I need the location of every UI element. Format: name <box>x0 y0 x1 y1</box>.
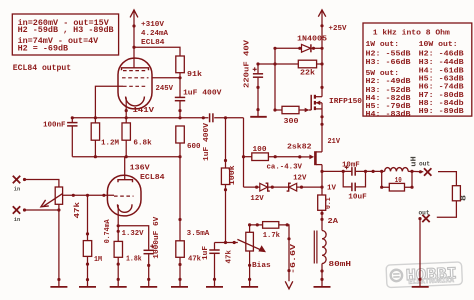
svg-text:1.8k: 1.8k <box>126 256 142 264</box>
svg-text:300: 300 <box>284 118 300 126</box>
svg-text:IRFP150: IRFP150 <box>329 98 363 106</box>
wire: bias feed line <box>215 241 238 244</box>
ground (1M) <box>79 286 96 288</box>
svg-text:H6: -74dB: H6: -74dB <box>419 84 465 92</box>
svg-text:H5: -63dB: H5: -63dB <box>419 76 465 84</box>
svg-text:245V: 245V <box>156 85 174 93</box>
wire: load bottom to out return <box>437 201 457 218</box>
power -6.6V negative supply <box>279 225 298 289</box>
wire: X1 to potentiometer <box>25 180 59 188</box>
wire: branch to 91k <box>134 47 180 56</box>
wire: screen grid g2 tap <box>152 77 180 79</box>
connector out (return) <box>418 209 429 222</box>
ground (choke) <box>314 286 331 288</box>
resistor 6.8k <box>122 123 152 158</box>
node: screen junction <box>178 76 181 79</box>
svg-text:10W out:: 10W out: <box>419 41 458 49</box>
svg-text:ECL84: ECL84 <box>141 39 165 47</box>
svg-text:47k: 47k <box>188 256 201 264</box>
wire: anode lead into pentode <box>133 47 135 68</box>
watermark HOBBI ELEKTRONIKA logo <box>386 262 462 288</box>
capacitor 100nF <box>43 118 78 157</box>
svg-text:80mH: 80mH <box>329 261 352 269</box>
svg-text:5W out:: 5W out: <box>366 70 400 78</box>
note box: measurement summary <box>12 14 118 55</box>
svg-text:8: 8 <box>461 195 469 201</box>
triode V1a ECL84 input section <box>107 175 141 216</box>
svg-text:47k: 47k <box>225 249 233 263</box>
ground (1000uF) <box>140 286 157 288</box>
connector out (hot) <box>419 160 431 175</box>
svg-text:1V: 1V <box>327 185 336 193</box>
connector X1 input "in" <box>13 176 26 193</box>
svg-text:H5: -79dB: H5: -79dB <box>366 103 412 111</box>
resistor 300 gate stopper <box>275 106 311 126</box>
svg-text:ECL84: ECL84 <box>140 174 165 182</box>
diode 1N4005 <box>275 36 328 53</box>
capacitor 220uF 40V <box>244 39 264 116</box>
power +310V <box>130 10 168 47</box>
wire: triode cathode down <box>117 205 120 241</box>
resistor 8 ohm load <box>452 186 468 201</box>
wire: main horizontal bus <box>72 118 243 187</box>
wire: choke to ground <box>320 264 323 287</box>
svg-text:10uF: 10uF <box>348 193 367 201</box>
connector X2 input "in" <box>13 206 26 223</box>
ground (pot) <box>50 286 67 288</box>
svg-text:-6.6V: -6.6V <box>290 243 298 274</box>
capacitor 1uF 400V screen bypass <box>175 90 222 118</box>
ground (220uF local) <box>250 116 267 118</box>
svg-text:10mF: 10mF <box>342 161 360 169</box>
resistor 91k <box>176 56 203 79</box>
inductor output uH coil <box>382 156 419 171</box>
ground (47k) <box>171 286 188 288</box>
zener diode 12V #2 <box>287 175 322 191</box>
svg-text:4.24mA: 4.24mA <box>141 30 168 38</box>
svg-text:1.7k: 1.7k <box>263 232 281 240</box>
node: bus junctions <box>71 116 227 119</box>
svg-text:H8: -84db: H8: -84db <box>419 100 465 108</box>
svg-text:H7: -80dB: H7: -80dB <box>419 92 465 100</box>
svg-text:1000uF 6V: 1000uF 6V <box>153 216 161 259</box>
resistor 22k <box>258 60 322 77</box>
svg-text:6.8k: 6.8k <box>133 139 152 147</box>
potentiometer Bias 47k <box>225 232 271 270</box>
svg-text:1.2M: 1.2M <box>101 139 119 147</box>
wire: wiper to triode grid <box>63 194 114 197</box>
MOSFET IRFP150 <box>311 95 362 110</box>
svg-text:0.1: 0.1 <box>325 197 333 209</box>
svg-text:H4: -83dB: H4: -83dB <box>366 111 412 119</box>
svg-text:1M: 1M <box>94 256 102 264</box>
svg-text:12V: 12V <box>250 195 264 203</box>
ground (1uF) <box>206 286 223 288</box>
resistor 1M grid leak <box>83 195 102 287</box>
wire: pentode control grid <box>95 86 123 118</box>
svg-text:22k: 22k <box>300 70 316 78</box>
svg-text:H4: -61dB: H4: -61dB <box>419 68 465 76</box>
node: segment dot <box>125 109 128 112</box>
svg-text:12V: 12V <box>293 175 307 183</box>
svg-text:21V: 21V <box>328 138 341 146</box>
resistor 10 damping <box>380 170 414 191</box>
svg-text:600: 600 <box>187 143 201 151</box>
resistor 1.8k cathode bias <box>114 241 142 287</box>
capacitor 10mF output <box>342 161 382 175</box>
svg-text:3.5mA: 3.5mA <box>187 230 210 238</box>
svg-text:47k: 47k <box>74 201 82 218</box>
wire: 600 down to 47k <box>178 143 181 241</box>
svg-text:100: 100 <box>253 146 268 154</box>
svg-text:1uF 400V: 1uF 400V <box>183 90 222 98</box>
svg-text:H3: -66dB: H3: -66dB <box>366 59 412 67</box>
wire: 91k to bypass cap <box>179 73 181 98</box>
wire: out to 8 ohm load <box>438 172 456 186</box>
svg-text:H2: -46dB: H2: -46dB <box>419 51 465 59</box>
svg-text:2A: 2A <box>328 218 339 226</box>
svg-text:+25V: +25V <box>329 25 347 33</box>
resistor 100k <box>221 118 236 243</box>
svg-text:H3: -44dB: H3: -44dB <box>419 59 465 67</box>
node: anode/91k junction <box>132 46 135 49</box>
svg-text:1uF: 1uF <box>202 245 210 260</box>
svg-text:ECL84 output: ECL84 output <box>13 64 71 73</box>
potentiometer 47k volume <box>41 187 82 218</box>
resistor 600 <box>176 126 201 151</box>
wire: X2 to pot bottom <box>25 209 59 211</box>
svg-text:1.32V: 1.32V <box>122 230 144 238</box>
wire: to out connector <box>412 170 423 173</box>
svg-text:2sk82: 2sk82 <box>287 144 312 152</box>
ground (output) <box>412 286 429 288</box>
svg-text:1N4005: 1N4005 <box>297 36 328 44</box>
node: segment dot <box>178 109 181 112</box>
capacitor 1000uF 6V <box>144 216 162 287</box>
wire: left branch of bootstrap <box>274 48 276 110</box>
wire: pentode cathode down <box>125 98 127 123</box>
svg-text:1uF 400V: 1uF 400V <box>203 122 211 161</box>
capacitor 1uF 400V coupling <box>203 113 213 161</box>
ground (bias pot) <box>241 286 258 288</box>
ground (1.8k) <box>110 286 127 288</box>
resistor 100 <box>242 146 300 160</box>
wire: bias pot bottom to ground <box>248 251 251 287</box>
power +25V <box>318 10 347 97</box>
wire: cathode to 1000uF <box>118 226 149 250</box>
wire: 0.1 to choke <box>320 210 323 230</box>
wire: bias pot top <box>248 223 289 232</box>
svg-text:out: out <box>419 209 430 216</box>
capacitor 10uF bypass branch <box>343 171 367 201</box>
svg-text:91k: 91k <box>187 71 203 79</box>
wire: rail 2SK82 source down <box>320 165 323 195</box>
zener diode 12V #1 <box>244 183 289 203</box>
svg-text:H2 -59dB , H3 -89dB: H2 -59dB , H3 -89dB <box>18 26 114 35</box>
svg-text:+310V: +310V <box>141 21 164 29</box>
svg-text:H3: -52dB: H3: -52dB <box>366 87 412 95</box>
svg-text:H2: -55dB: H2: -55dB <box>366 51 412 59</box>
svg-text:ca.-4.3V: ca.-4.3V <box>267 164 303 172</box>
capacitor 1uF bias filter <box>202 243 220 287</box>
svg-text:100k: 100k <box>229 165 237 186</box>
svg-text:H9: -89dB: H9: -89dB <box>419 108 465 116</box>
svg-text:1 kHz into 8 Ohm: 1 kHz into 8 Ohm <box>373 30 451 38</box>
svg-text:H4: -82dB: H4: -82dB <box>366 95 412 103</box>
svg-text:Bias: Bias <box>252 262 271 270</box>
pentode V1b ECL84 output section <box>118 58 152 109</box>
resistor 1.2M <box>91 118 119 158</box>
svg-text:out: out <box>419 160 430 167</box>
svg-text:in: in <box>14 185 21 192</box>
svg-text:1W out:: 1W out: <box>366 41 400 49</box>
svg-text:0.74mA: 0.74mA <box>104 219 112 243</box>
transistor 2SK82 SIT <box>287 138 340 165</box>
wire: rail MOSFET source to 2SK82 drain <box>320 103 323 152</box>
svg-text:in: in <box>14 216 21 223</box>
svg-text:10: 10 <box>395 177 402 185</box>
wire: output tap <box>322 170 351 173</box>
inductor 80mH choke with core <box>314 231 351 270</box>
svg-text:H2 = -69dB: H2 = -69dB <box>18 44 69 53</box>
wire: triode anode lead <box>124 157 126 180</box>
resistor 0.1 <box>318 195 334 210</box>
svg-text:H2: -49dB: H2: -49dB <box>366 78 412 86</box>
svg-text:100nF: 100nF <box>43 121 66 129</box>
svg-text:uH: uH <box>410 156 418 167</box>
resistor 47k follower load <box>176 241 202 287</box>
svg-text:141V: 141V <box>133 107 155 115</box>
wire: 136V node line <box>72 156 180 158</box>
svg-text:220uF 40V: 220uF 40V <box>244 39 252 88</box>
svg-text:136V: 136V <box>130 165 151 173</box>
wire: pot bottom to ground <box>57 204 60 287</box>
resistor 1.7k <box>263 222 281 241</box>
wire: return to ground <box>418 219 421 287</box>
note box: harmonic distortion table <box>363 23 472 119</box>
